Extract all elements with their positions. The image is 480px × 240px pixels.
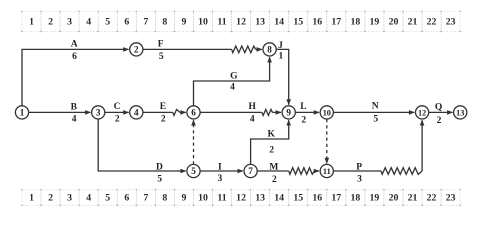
svg-text:12: 12	[418, 109, 426, 118]
svg-text:2: 2	[48, 16, 53, 27]
svg-text:14: 14	[274, 193, 284, 204]
svg-text:3: 3	[218, 174, 223, 184]
svg-text:7: 7	[248, 166, 253, 176]
svg-text:3: 3	[67, 193, 72, 204]
svg-text:16: 16	[312, 193, 322, 204]
svg-text:5: 5	[157, 175, 162, 185]
svg-text:19: 19	[370, 193, 380, 204]
svg-text:4: 4	[72, 114, 77, 124]
svg-text:5: 5	[105, 16, 110, 27]
svg-text:20: 20	[389, 16, 399, 27]
svg-text:12: 12	[236, 193, 246, 204]
svg-text:11: 11	[217, 16, 226, 27]
svg-text:H: H	[249, 102, 257, 112]
svg-text:23: 23	[446, 193, 456, 204]
svg-text:G: G	[230, 71, 238, 81]
svg-text:4: 4	[250, 114, 255, 124]
svg-text:14: 14	[274, 16, 284, 27]
svg-text:16: 16	[312, 16, 322, 27]
svg-text:A: A	[71, 40, 78, 50]
svg-text:2: 2	[437, 116, 442, 126]
svg-text:5: 5	[159, 52, 164, 62]
svg-text:7: 7	[143, 193, 148, 204]
svg-text:11: 11	[217, 193, 226, 204]
svg-text:E: E	[160, 102, 166, 112]
svg-text:2: 2	[48, 193, 53, 204]
svg-text:I: I	[218, 163, 222, 173]
svg-text:2: 2	[272, 175, 277, 185]
svg-text:2: 2	[134, 45, 139, 55]
svg-text:P: P	[356, 163, 362, 173]
svg-text:K: K	[268, 129, 276, 139]
svg-text:17: 17	[331, 16, 341, 27]
svg-text:M: M	[269, 163, 278, 173]
svg-text:6: 6	[72, 52, 77, 62]
svg-text:8: 8	[267, 45, 272, 55]
svg-text:9: 9	[286, 108, 291, 118]
svg-text:B: B	[71, 103, 78, 113]
svg-text:22: 22	[427, 16, 437, 27]
svg-text:1: 1	[20, 108, 25, 118]
svg-text:N: N	[372, 102, 379, 112]
svg-text:4: 4	[230, 83, 235, 93]
svg-text:13: 13	[255, 16, 265, 27]
svg-text:11: 11	[323, 167, 331, 176]
svg-text:1: 1	[29, 16, 34, 27]
svg-text:L: L	[300, 102, 306, 112]
svg-text:10: 10	[198, 16, 208, 27]
svg-text:23: 23	[446, 16, 456, 27]
svg-text:7: 7	[143, 16, 148, 27]
svg-text:2: 2	[269, 146, 274, 156]
svg-text:12: 12	[236, 16, 246, 27]
svg-text:4: 4	[134, 108, 139, 118]
svg-text:17: 17	[331, 193, 341, 204]
svg-text:15: 15	[293, 193, 303, 204]
svg-text:10: 10	[198, 193, 208, 204]
svg-text:20: 20	[389, 193, 399, 204]
svg-text:5: 5	[373, 114, 378, 124]
svg-text:19: 19	[370, 16, 380, 27]
svg-text:6: 6	[124, 193, 129, 204]
svg-text:3: 3	[96, 108, 101, 118]
svg-text:21: 21	[408, 16, 418, 27]
svg-text:3: 3	[357, 175, 362, 185]
svg-text:10: 10	[323, 109, 331, 118]
svg-text:6: 6	[191, 108, 196, 118]
svg-text:D: D	[156, 162, 163, 172]
svg-text:15: 15	[293, 16, 303, 27]
svg-text:4: 4	[86, 16, 91, 27]
svg-text:4: 4	[86, 193, 91, 204]
svg-text:2: 2	[301, 115, 306, 125]
svg-text:5: 5	[191, 166, 196, 176]
svg-text:5: 5	[105, 193, 110, 204]
svg-text:3: 3	[67, 16, 72, 27]
svg-text:13: 13	[255, 193, 265, 204]
svg-text:22: 22	[427, 193, 437, 204]
svg-text:21: 21	[408, 193, 418, 204]
svg-text:6: 6	[124, 16, 129, 27]
svg-text:9: 9	[181, 16, 186, 27]
svg-text:1: 1	[279, 51, 284, 61]
svg-text:F: F	[158, 40, 164, 50]
svg-text:18: 18	[350, 193, 360, 204]
svg-text:1: 1	[29, 193, 34, 204]
svg-text:8: 8	[162, 193, 167, 204]
svg-text:8: 8	[162, 16, 167, 27]
svg-text:Q: Q	[435, 103, 442, 113]
svg-text:18: 18	[350, 16, 360, 27]
svg-text:13: 13	[456, 109, 464, 118]
svg-text:J: J	[278, 41, 283, 51]
svg-text:9: 9	[181, 193, 186, 204]
svg-text:2: 2	[115, 114, 120, 124]
svg-text:C: C	[114, 102, 121, 112]
svg-text:2: 2	[161, 114, 166, 124]
